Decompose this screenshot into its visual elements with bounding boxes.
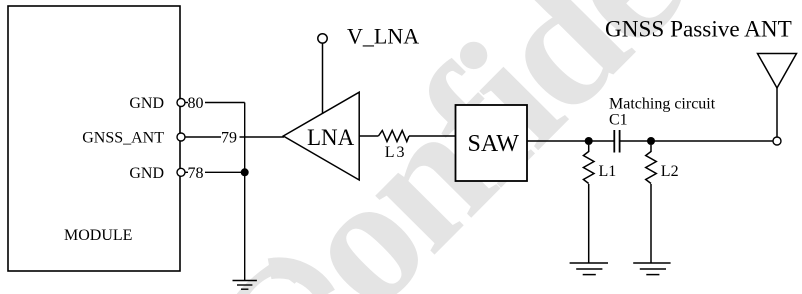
- svg-text:L1: L1: [599, 163, 617, 180]
- module box U (MODULE): [8, 6, 180, 271]
- capacitor C1 plates: [613, 130, 615, 153]
- wire LNA out: [359, 135, 378, 137]
- inductor L3 zigzag: [378, 131, 409, 142]
- wire pin 78 to junction: [205, 171, 245, 173]
- svg-text:LNA: LNA: [307, 125, 355, 150]
- junction dot node L1: [585, 137, 593, 145]
- filter SAW box: [456, 105, 528, 181]
- svg-text:Matching circuit: Matching circuit: [609, 96, 716, 113]
- svg-text:GND: GND: [129, 95, 164, 112]
- svg-text:79: 79: [221, 130, 237, 147]
- pin circle 78: [177, 168, 185, 176]
- wire pin 80 to bus: [205, 102, 245, 104]
- svg-text:GND: GND: [129, 165, 164, 182]
- svg-text:GNSS_ANT: GNSS_ANT: [82, 130, 164, 147]
- ground under L1: [570, 263, 608, 275]
- svg-text:SAW: SAW: [468, 131, 520, 157]
- svg-text:80: 80: [188, 95, 204, 112]
- wire pin 78 stub: [185, 171, 188, 173]
- node circle antenna feed: [773, 137, 781, 145]
- wire pin 80 stub: [185, 102, 188, 104]
- pin circle 80: [177, 99, 185, 107]
- junction dot node L2: [647, 137, 655, 145]
- ground under L2: [633, 263, 670, 275]
- junction dot at pin 78 bus: [241, 168, 249, 176]
- wire antenna down: [776, 88, 778, 137]
- wire L2 to ground: [650, 184, 652, 263]
- wire L1 to ground: [588, 184, 590, 263]
- pin circle 79: [177, 133, 185, 141]
- svg-text:78: 78: [188, 165, 204, 182]
- inductor L1 zigzag: [588, 145, 590, 152]
- wire V_LNA to LNA: [322, 43, 324, 114]
- ground under module bus: [233, 281, 257, 290]
- wire SAW out to C1: [527, 140, 614, 142]
- antenna symbol: [758, 54, 797, 89]
- svg-text:L3: L3: [385, 144, 407, 161]
- supply terminal circle V_LNA: [318, 34, 327, 43]
- svg-text:MODULE: MODULE: [64, 227, 132, 244]
- svg-text:C1: C1: [609, 112, 628, 129]
- op-amp LNA triangle: [283, 92, 359, 180]
- wire pin 79 stub: [185, 136, 221, 138]
- svg-text:V_LNA: V_LNA: [347, 24, 419, 49]
- wire pin 79 to LNA: [240, 136, 285, 138]
- svg-text:GNSS Passive ANT: GNSS Passive ANT: [605, 16, 792, 42]
- svg-text:L2: L2: [661, 163, 679, 180]
- inductor L2 zigzag: [650, 145, 652, 152]
- wire C1 to antenna node: [621, 140, 774, 142]
- wire L3 to SAW: [409, 135, 456, 137]
- wire ground bus vertical: [244, 103, 246, 281]
